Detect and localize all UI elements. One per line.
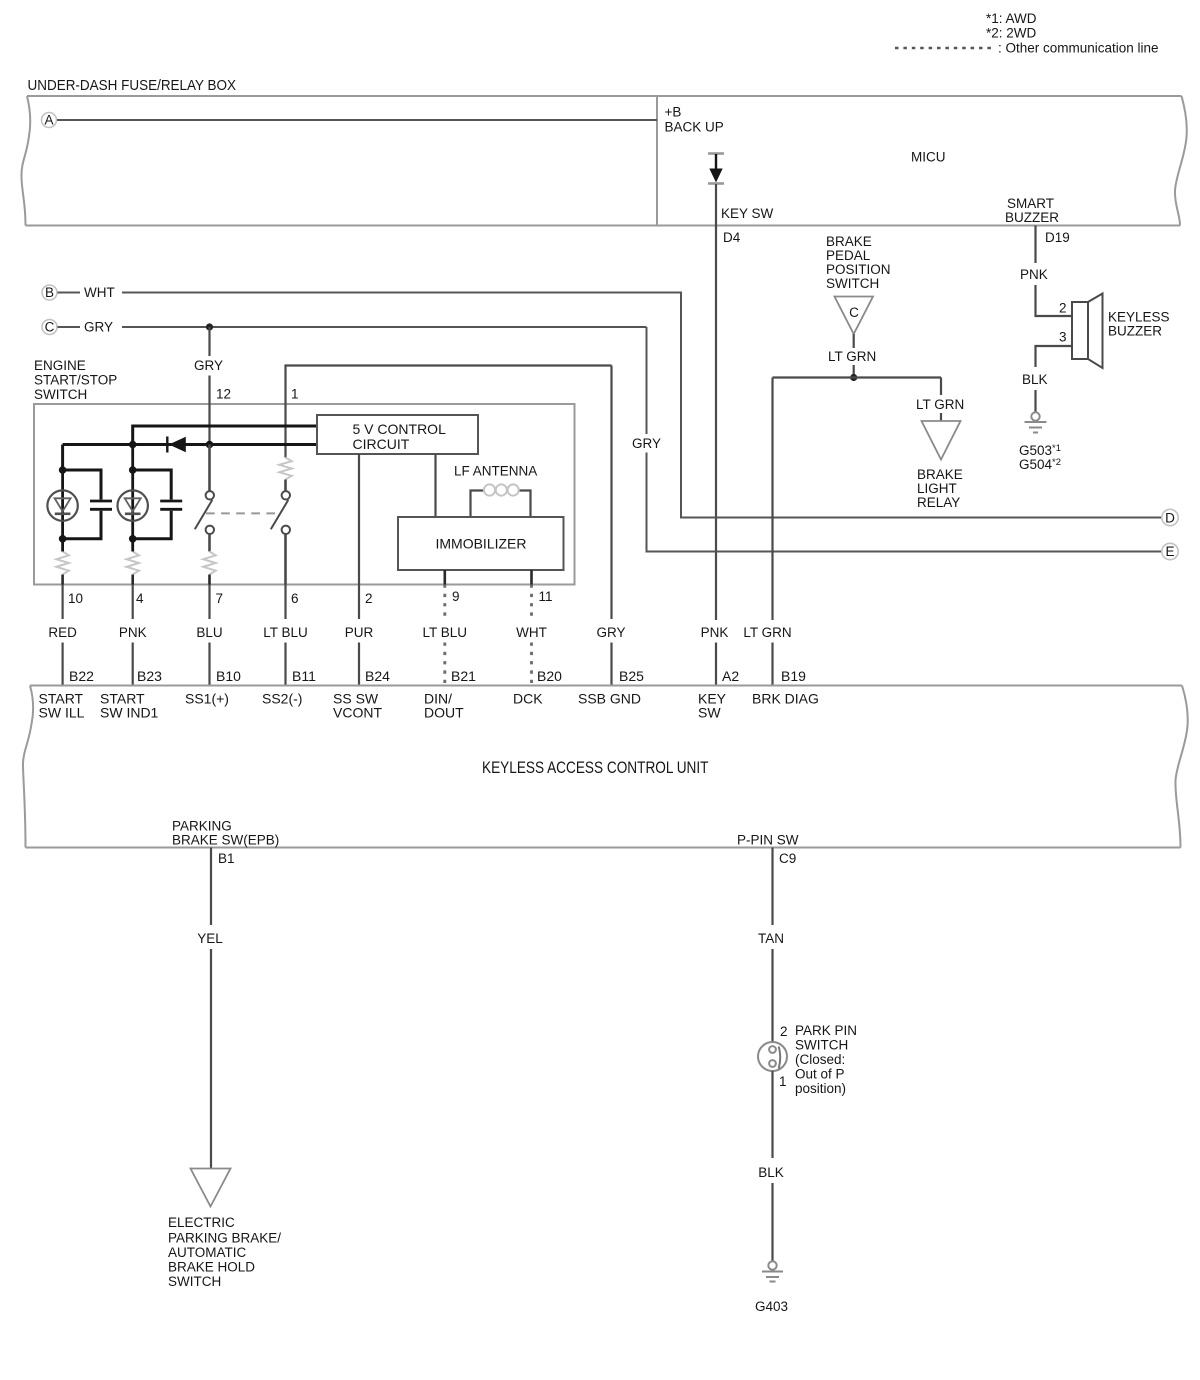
svg-text:C: C [45, 320, 55, 335]
svg-text:SS2(-): SS2(-) [262, 691, 302, 707]
svg-text:PNK: PNK [119, 625, 147, 640]
svg-text:MICU: MICU [911, 150, 946, 165]
svg-text:PARK PIN: PARK PIN [795, 1023, 857, 1038]
engine start/stop switch box outline [34, 404, 575, 585]
pin B10 label [216, 668, 241, 684]
wire buzzer pin 3 to ground [1036, 346, 1073, 412]
brake light relay label [917, 467, 963, 510]
svg-text:1: 1 [779, 1074, 787, 1089]
svg-text:BRAKE SW(EPB): BRAKE SW(EPB) [172, 833, 279, 848]
connector A [42, 113, 57, 128]
svg-text:UNDER-DASH FUSE/RELAY BOX: UNDER-DASH FUSE/RELAY BOX [28, 77, 237, 94]
svg-text:SW: SW [698, 705, 721, 721]
connector C triangle (brake pedal position switch) [835, 297, 874, 335]
pin D4 [723, 230, 741, 245]
svg-text:+B: +B [665, 105, 682, 120]
LED lamp 2 (start sw indicator) [118, 445, 148, 539]
keyless access control unit box outline [23, 686, 1188, 848]
svg-text:START/STOP: START/STOP [34, 373, 117, 388]
svg-text:SWITCH: SWITCH [168, 1274, 221, 1289]
junction dot LED2 top node [129, 466, 137, 474]
svg-text:BRAKE: BRAKE [917, 467, 963, 482]
wire label LT GRN (B19) [743, 625, 791, 640]
svg-text:E: E [1165, 544, 1174, 559]
pin 2 of park pin switch [780, 1024, 788, 1039]
wire label LT GRN (relay) [916, 397, 964, 412]
connector C [42, 320, 57, 335]
capacitor C1 (parallel with LED1) [63, 470, 112, 539]
LF antenna coil L1 [471, 484, 531, 517]
svg-text:ELECTRIC: ELECTRIC [168, 1215, 235, 1230]
diode D2 (on LED rail, pointing left) [167, 437, 186, 453]
pin B20 label [537, 668, 562, 684]
pin B22 label [69, 668, 94, 684]
svg-text:7: 7 [216, 591, 224, 606]
fuse box internal divider [656, 96, 658, 226]
svg-text:KEYLESS: KEYLESS [1108, 310, 1170, 325]
pin 3 of keyless buzzer [1059, 330, 1067, 345]
svg-text:SW ILL: SW ILL [39, 705, 85, 721]
svg-text:KEY SW: KEY SW [721, 206, 774, 221]
wire to LT GRN junction [853, 365, 855, 378]
svg-text:B19: B19 [781, 668, 806, 684]
under-dash fuse/relay box outline [21, 96, 1186, 226]
connector D [1162, 509, 1178, 525]
park pin switch label [795, 1023, 857, 1096]
svg-text:B11: B11 [292, 668, 316, 684]
svg-text:SWITCH: SWITCH [34, 387, 87, 402]
svg-text:SS1(+): SS1(+) [185, 691, 229, 707]
svg-text:9: 9 [452, 589, 460, 604]
pin 6 label [291, 591, 299, 606]
svg-text:DCK: DCK [513, 691, 543, 707]
svg-text:PNK: PNK [701, 625, 729, 640]
svg-text:VCONT: VCONT [333, 705, 382, 721]
wire 5V box to immobilizer [434, 454, 436, 517]
svg-text:PARKING BRAKE/: PARKING BRAKE/ [168, 1231, 281, 1246]
svg-text:(Closed:: (Closed: [795, 1052, 845, 1067]
svg-text:GRY: GRY [632, 436, 661, 451]
svg-text:1: 1 [291, 387, 299, 402]
svg-text:DOUT: DOUT [424, 705, 464, 721]
node PARKING BRAKE SW(EPB) [172, 819, 279, 848]
pin B11 label [292, 668, 316, 684]
pin B1 label [218, 851, 235, 866]
svg-text:BRAKE HOLD: BRAKE HOLD [168, 1260, 255, 1275]
wire rail lower (LED anode rail) [63, 445, 317, 471]
pin D19 [1045, 230, 1070, 245]
svg-text:3: 3 [1059, 330, 1067, 345]
keyless buzzer BZ1 symbol [1072, 294, 1103, 369]
LF antenna label [454, 464, 537, 479]
wire label GRY (vertical run) [632, 436, 661, 451]
svg-text:BACK UP: BACK UP [665, 120, 724, 135]
svg-text:POSITION: POSITION [826, 262, 891, 277]
capacitor C2 (parallel with LED2) [133, 470, 183, 539]
svg-text:LIGHT: LIGHT [917, 481, 957, 496]
ground name G503 / G504 [1019, 443, 1061, 472]
svg-text:A: A [44, 113, 53, 128]
immobilizer box U2 [398, 517, 564, 570]
junction dot LED1 bottom node [59, 535, 67, 543]
svg-text:P-PIN SW: P-PIN SW [737, 833, 799, 848]
pin function SS2(-) [262, 691, 302, 707]
svg-text:SMART: SMART [1007, 196, 1054, 211]
pin function DCK [513, 691, 543, 707]
svg-text:TAN: TAN [758, 931, 784, 946]
svg-text:B20: B20 [537, 668, 562, 684]
svg-text:B22: B22 [69, 668, 94, 684]
wire KEY SW D4 down to keyless unit A2 [715, 184, 717, 686]
wire stub from connector C [58, 326, 81, 328]
svg-text:BRK DIAG: BRK DIAG [752, 691, 819, 707]
svg-text:C: C [849, 305, 859, 320]
svg-text:BLK: BLK [758, 1165, 784, 1180]
wire LT BLU pin to keyless unit [443, 585, 446, 686]
brake pedal position switch label [826, 234, 891, 291]
under-dash fuse/relay box label [28, 77, 237, 94]
svg-text:RED: RED [48, 625, 77, 640]
wire label RED [48, 625, 77, 640]
svg-text:BRAKE: BRAKE [826, 234, 872, 249]
legend note other communication line [998, 41, 1159, 56]
switch SS2 (start/stop contact 2) [271, 480, 290, 585]
svg-text:LT GRN: LT GRN [828, 349, 876, 364]
svg-text:KEYLESS ACCESS CONTROL UNIT: KEYLESS ACCESS CONTROL UNIT [482, 759, 709, 777]
ground G403 symbol [762, 1261, 783, 1281]
connector E [1162, 543, 1178, 559]
pin B19 label [781, 668, 806, 684]
svg-text:SWITCH: SWITCH [795, 1038, 848, 1053]
pin 2 of keyless buzzer [1059, 301, 1067, 316]
node P-PIN SW [737, 833, 799, 848]
wire LT GRN to brake light relay [940, 378, 942, 422]
LED lamp 1 (start sw illumination) [47, 470, 77, 539]
svg-text:BLU: BLU [196, 625, 222, 640]
connector B [42, 285, 57, 300]
5 V control circuit box U1 [317, 415, 478, 454]
wire YEL from B1 to EPB switch [210, 848, 212, 1169]
wire immobilizer pin 9 [443, 570, 446, 585]
pin C9 label [779, 851, 796, 866]
svg-text:2: 2 [365, 591, 373, 606]
wire BLK from park pin switch to ground [771, 1071, 773, 1262]
wire rail upper (to 5V control circuit) [133, 426, 317, 445]
svg-text:12: 12 [216, 387, 231, 402]
svg-text:B10: B10 [216, 668, 241, 684]
pin 4 label [136, 591, 144, 606]
electric parking brake / automatic brake hold switch label [168, 1215, 281, 1289]
wire GRY pin 1 / SSB GND horizontal [286, 366, 612, 458]
pin B25 label [619, 668, 644, 684]
wire GRY from C to connector E [122, 327, 1162, 552]
junction node LT GRN [850, 374, 857, 381]
svg-text:SWITCH: SWITCH [826, 276, 879, 291]
resistor R3 (below SS1) [203, 552, 215, 585]
svg-text:PNK: PNK [1020, 267, 1048, 282]
svg-text:LF ANTENNA: LF ANTENNA [454, 464, 537, 479]
wire label PUR [345, 625, 374, 640]
pin function DIN/DOUT [424, 691, 464, 721]
svg-text:B25: B25 [619, 668, 644, 684]
wire label GRY (pin 12) [194, 358, 223, 373]
node KEY SW (fuse box output) [721, 206, 774, 221]
wire LT BLU pin to keyless unit [284, 585, 286, 686]
svg-text:BLK: BLK [1022, 372, 1048, 387]
svg-text:B21: B21 [451, 668, 476, 684]
wire 5V box to pin 2 [358, 454, 360, 585]
mechanical link dashed between SS1 and SS2 [206, 512, 275, 514]
wire WHT from B to connector D [122, 293, 1162, 518]
keyless buzzer label [1108, 310, 1170, 339]
pin 7 label [216, 591, 224, 606]
svg-text:D19: D19 [1045, 230, 1070, 245]
svg-text:4: 4 [136, 591, 144, 606]
pin 9 label [452, 589, 460, 604]
svg-text:LT GRN: LT GRN [743, 625, 791, 640]
pin 2 label [365, 591, 373, 606]
wire label BLU [196, 625, 222, 640]
svg-text:position): position) [795, 1081, 846, 1096]
wire label LT BLU [263, 625, 308, 640]
svg-text:PUR: PUR [345, 625, 374, 640]
svg-text:A2: A2 [722, 668, 739, 684]
wire GRY pin 12 from C-line junction [208, 327, 210, 445]
svg-text:PARKING: PARKING [172, 819, 232, 834]
svg-text:GRY: GRY [596, 625, 625, 640]
legend note *2 2WD [986, 26, 1037, 41]
wire label TAN [758, 931, 784, 946]
svg-text:B24: B24 [365, 668, 390, 684]
svg-text:6: 6 [291, 591, 299, 606]
pin function BRK DIAG [752, 691, 819, 707]
wire RED pin to keyless unit [61, 585, 63, 686]
resistor R1 (below LED1) [56, 539, 68, 585]
svg-text:*2: 2WD: *2: 2WD [986, 26, 1037, 41]
svg-text:B1: B1 [218, 851, 235, 866]
wire stub from connector B [58, 292, 81, 294]
wire label LT GRN (pedal switch) [828, 349, 876, 364]
svg-text:G403: G403 [755, 1299, 788, 1314]
wire label GRY [84, 320, 113, 335]
node SMART BUZZER [1005, 196, 1059, 225]
svg-text:LT BLU: LT BLU [263, 625, 308, 640]
svg-text:GRY: GRY [84, 320, 113, 335]
svg-text:LT BLU: LT BLU [423, 625, 468, 640]
wire label PNK (smart buzzer) [1020, 267, 1048, 282]
svg-text:SW IND1: SW IND1 [100, 705, 159, 721]
wire label LT BLU [423, 625, 468, 640]
svg-text:WHT: WHT [516, 625, 547, 640]
svg-text:D: D [1165, 511, 1175, 526]
pin B21 label [451, 668, 476, 684]
pin A2 label [722, 668, 739, 684]
svg-text:PEDAL: PEDAL [826, 248, 871, 263]
switch SS1 (start/stop contact 1) [195, 445, 214, 552]
svg-text:D4: D4 [723, 230, 741, 245]
svg-text:GRY: GRY [194, 358, 223, 373]
pin 1 label [291, 387, 299, 402]
pin function START SW IND1 [100, 691, 159, 721]
pin function START SW ILL [39, 691, 85, 721]
pin 10 label [68, 591, 83, 606]
svg-text:10: 10 [68, 591, 83, 606]
wire D19 to keyless buzzer pin 2 [1036, 226, 1073, 317]
wire PNK pin to keyless unit [132, 585, 134, 686]
svg-text:IMMOBILIZER: IMMOBILIZER [435, 536, 526, 552]
pin function KEY SW [698, 691, 727, 721]
legend dashed other-communication-line sample [895, 47, 991, 50]
junction dot LED1 top node [59, 466, 67, 474]
wire label PNK (key sw) [701, 625, 729, 640]
pin 12 label [216, 387, 231, 402]
wire label GRY (B25) [596, 625, 625, 640]
svg-text:BUZZER: BUZZER [1108, 324, 1162, 339]
svg-text:RELAY: RELAY [917, 495, 960, 510]
wire label BLK [758, 1165, 784, 1180]
wire label BLK (buzzer ground) [1022, 372, 1048, 387]
pin B23 label [137, 668, 162, 684]
wire TAN from C9 to park pin switch [771, 848, 773, 1043]
pin function SSB GND [578, 691, 641, 707]
legend note *1 AWD [986, 11, 1037, 26]
svg-text:SSB GND: SSB GND [578, 691, 641, 707]
wire PUR pin to keyless unit [358, 585, 360, 686]
brake light relay connector triangle [922, 421, 961, 460]
svg-text:YEL: YEL [197, 931, 223, 946]
EPB switch connector triangle [191, 1169, 231, 1207]
svg-text:AUTOMATIC: AUTOMATIC [168, 1245, 247, 1260]
junction on C line at x=209.5 [206, 323, 213, 330]
svg-text:Out of P: Out of P [795, 1067, 845, 1082]
wire WHT pin to keyless unit [530, 585, 533, 686]
svg-text:2: 2 [1059, 301, 1067, 316]
pin 1 of park pin switch [779, 1074, 787, 1089]
wire label PNK [119, 625, 147, 640]
svg-text:WHT: WHT [84, 285, 115, 300]
wire BLU pin to keyless unit [208, 585, 210, 686]
svg-text:: Other communication line: : Other communication line [998, 41, 1159, 56]
wire GRY down to keyless unit B25 [610, 366, 612, 686]
MICU label [911, 150, 946, 165]
wire label WHT [84, 285, 115, 300]
svg-text:2: 2 [780, 1024, 788, 1039]
wire immobilizer pin 11 [530, 570, 533, 585]
ground name G403 [755, 1299, 788, 1314]
svg-text:B23: B23 [137, 668, 162, 684]
junction dot rail x=132.7 [129, 441, 137, 449]
resistor R2 (below LED2) [127, 539, 139, 585]
svg-text:5 V CONTROL: 5 V CONTROL [353, 421, 447, 437]
engine start/stop switch label [34, 358, 117, 402]
pin 11 label [539, 589, 553, 604]
park pin switch symbol [758, 1042, 787, 1071]
diode D1 in fuse box (back up) [708, 154, 724, 184]
svg-text:11: 11 [539, 589, 553, 604]
node +B BACK UP [665, 105, 724, 135]
wire from connector A to fuse box divider [57, 119, 657, 121]
svg-text:CIRCUIT: CIRCUIT [353, 436, 410, 452]
junction dot LED2 bottom node [129, 535, 137, 543]
svg-text:ENGINE: ENGINE [34, 358, 86, 373]
wire label WHT [516, 625, 547, 640]
svg-text:C9: C9 [779, 851, 796, 866]
svg-text:BUZZER: BUZZER [1005, 210, 1059, 225]
svg-text:*1: AWD: *1: AWD [986, 11, 1037, 26]
wire label YEL [197, 931, 223, 946]
wire LT GRN horizontal [773, 376, 942, 378]
wire from C triangle down [853, 334, 855, 348]
pin function SS1(+) [185, 691, 229, 707]
pin B24 label [365, 668, 390, 684]
svg-text:LT GRN: LT GRN [916, 397, 964, 412]
svg-text:B: B [45, 285, 54, 300]
wire LT GRN down to keyless unit B19 [771, 378, 773, 686]
junction dot rail x=209.5 [206, 441, 214, 449]
pin function SS SW VCONT [333, 691, 382, 721]
resistor R4 (above SS2, on pin1 branch) [279, 458, 291, 480]
ground G503/G504 symbol [1025, 412, 1047, 432]
keyless access control unit title [482, 759, 709, 777]
